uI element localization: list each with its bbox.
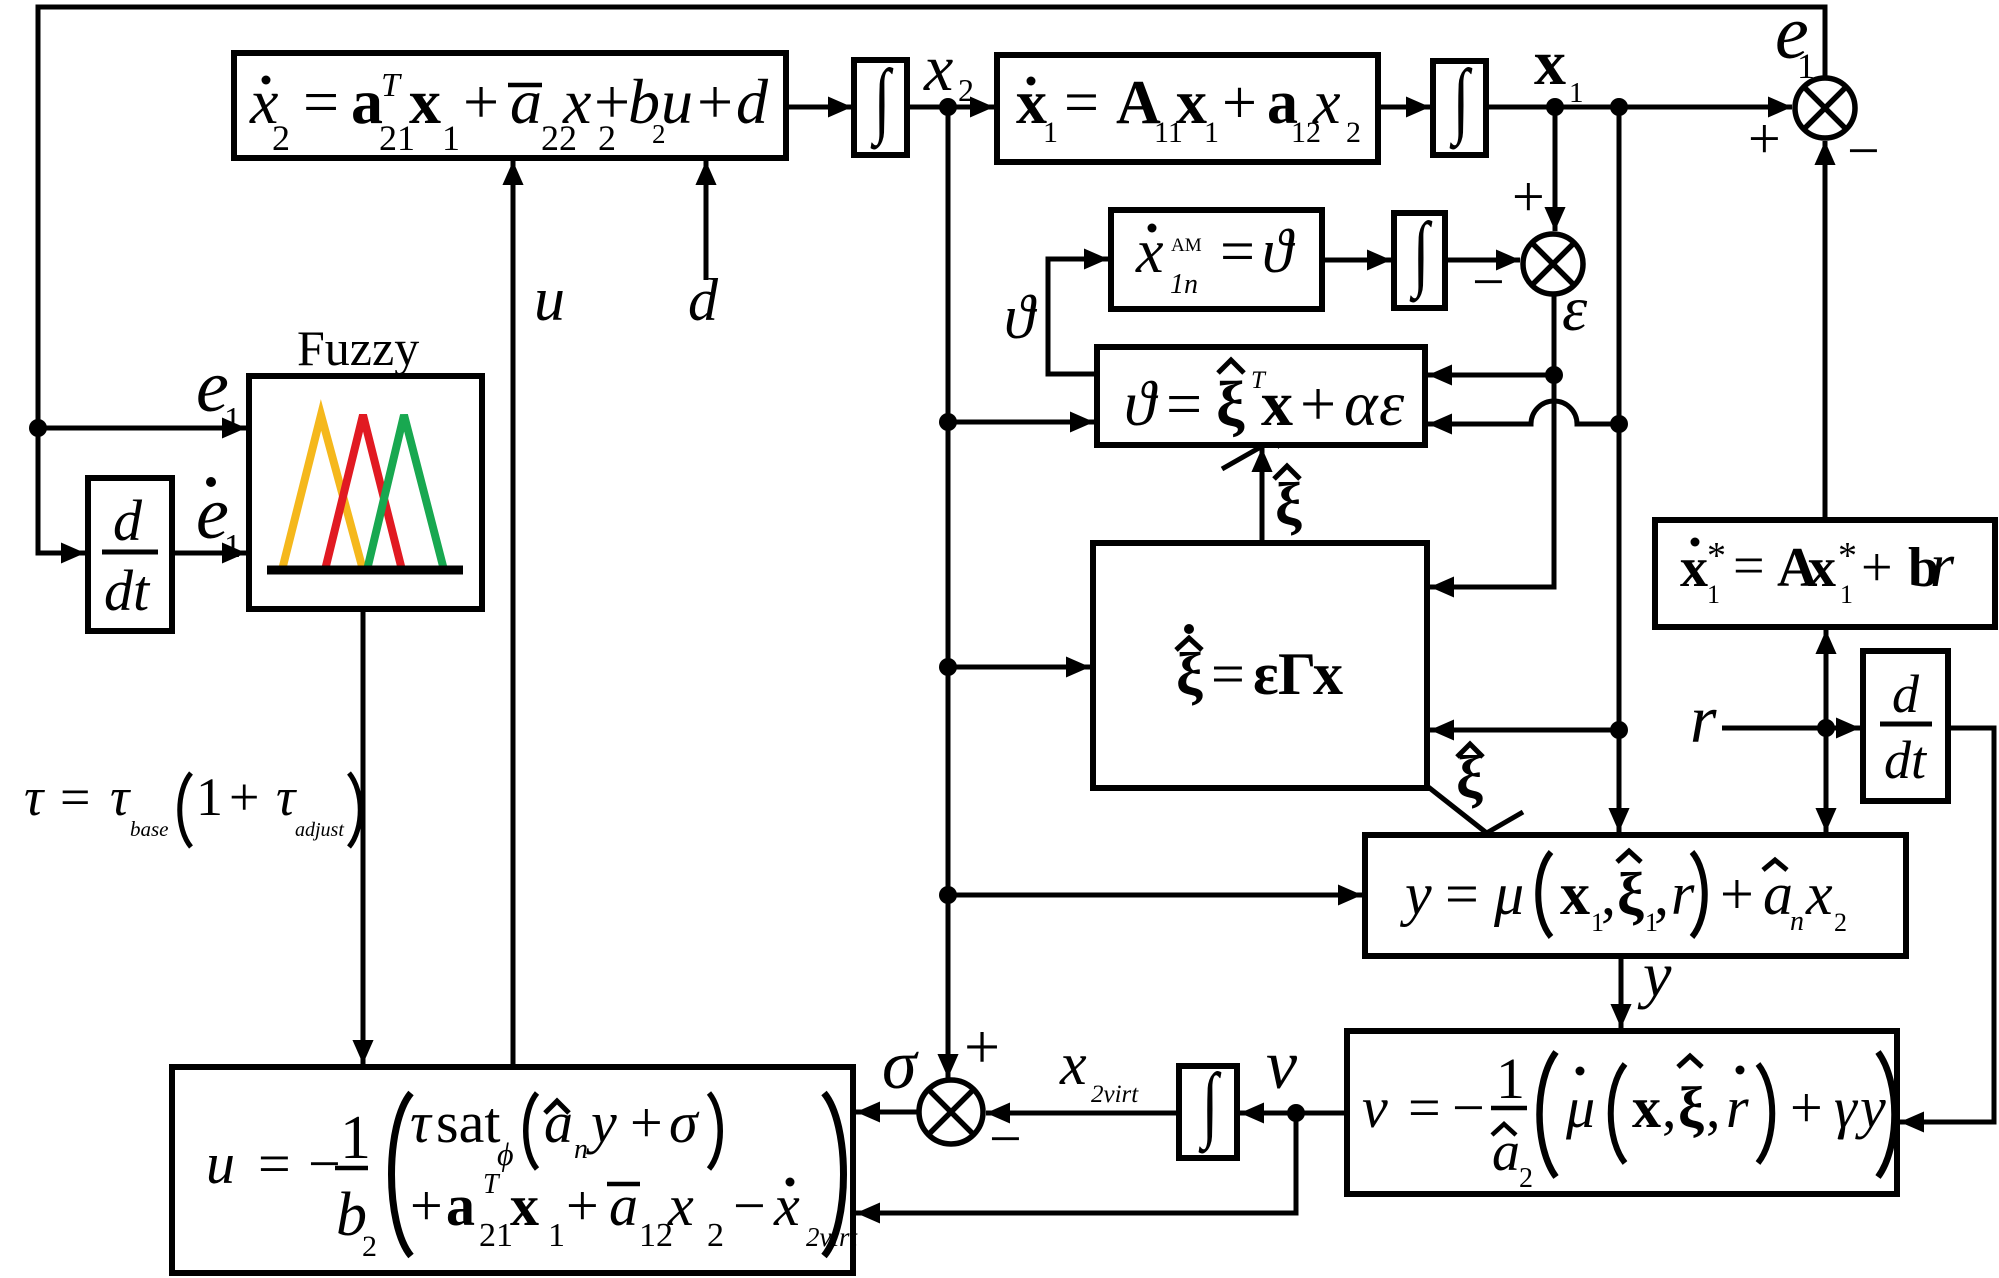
svg-text:=: = bbox=[1064, 69, 1099, 137]
svg-text:x: x bbox=[923, 32, 953, 105]
svg-text:2: 2 bbox=[707, 1217, 724, 1254]
svg-text:+: + bbox=[1861, 537, 1893, 599]
svg-text:−: − bbox=[1452, 1075, 1485, 1140]
svg-text:a: a bbox=[446, 1173, 475, 1238]
svg-text:a: a bbox=[1763, 861, 1793, 927]
svg-text:2: 2 bbox=[1834, 908, 1847, 937]
svg-text:1: 1 bbox=[548, 1217, 565, 1254]
svg-text:2: 2 bbox=[1519, 1163, 1533, 1194]
svg-text:v: v bbox=[1266, 1027, 1298, 1104]
svg-text:adjust: adjust bbox=[295, 819, 344, 841]
svg-text:d: d bbox=[736, 66, 769, 137]
svg-text:1: 1 bbox=[1707, 580, 1720, 609]
svg-text:1: 1 bbox=[1043, 116, 1058, 149]
svg-text:1: 1 bbox=[1797, 46, 1815, 86]
svg-text:∫: ∫ bbox=[1409, 205, 1432, 303]
svg-text:x: x bbox=[1312, 69, 1341, 137]
svg-text:=: = bbox=[1733, 535, 1765, 597]
svg-text:dt: dt bbox=[104, 558, 151, 623]
svg-text:μ: μ bbox=[1493, 861, 1524, 927]
svg-text:21: 21 bbox=[479, 1217, 513, 1254]
svg-text:+: + bbox=[410, 1173, 443, 1238]
svg-text:τ: τ bbox=[276, 767, 297, 827]
svg-text:n: n bbox=[1790, 906, 1804, 937]
svg-text:+: + bbox=[1512, 164, 1545, 229]
svg-text:x: x bbox=[1176, 69, 1207, 137]
svg-text:x: x bbox=[1560, 861, 1590, 927]
svg-text:x: x bbox=[510, 1173, 539, 1238]
svg-text:x: x bbox=[1261, 368, 1293, 439]
svg-text:n: n bbox=[574, 1134, 588, 1165]
svg-text:x: x bbox=[667, 1173, 694, 1238]
svg-text:v: v bbox=[1362, 1075, 1388, 1140]
svg-text:ε: ε bbox=[1253, 641, 1279, 707]
svg-text:+: + bbox=[463, 66, 499, 137]
svg-text:x: x bbox=[1808, 537, 1836, 599]
svg-text:+: + bbox=[1222, 69, 1257, 137]
svg-text:+: + bbox=[1720, 861, 1754, 927]
svg-text:2virt: 2virt bbox=[1091, 1081, 1139, 1108]
svg-text:T: T bbox=[381, 67, 402, 104]
svg-text:2: 2 bbox=[1346, 116, 1361, 149]
svg-text:r: r bbox=[1671, 861, 1695, 927]
svg-text:α: α bbox=[1344, 368, 1379, 439]
svg-text:1: 1 bbox=[1204, 116, 1219, 149]
svg-text:Fuzzy: Fuzzy bbox=[297, 320, 419, 376]
svg-text:d: d bbox=[688, 267, 719, 333]
svg-text:=: = bbox=[1445, 861, 1479, 927]
svg-text:T: T bbox=[483, 1169, 501, 1200]
svg-text:=: = bbox=[1211, 641, 1245, 707]
svg-text:+: + bbox=[1748, 106, 1781, 171]
svg-text:r: r bbox=[1690, 681, 1717, 757]
svg-text:1: 1 bbox=[224, 528, 241, 565]
svg-text:2: 2 bbox=[272, 118, 290, 158]
svg-text:x: x bbox=[1534, 27, 1566, 98]
svg-text:x: x bbox=[1632, 1075, 1661, 1140]
svg-text:ξ: ξ bbox=[1176, 641, 1203, 707]
svg-text:,: , bbox=[1601, 861, 1616, 927]
svg-text:dt: dt bbox=[1884, 730, 1928, 790]
svg-text:+: + bbox=[1300, 368, 1336, 439]
svg-text:*: * bbox=[1707, 535, 1726, 577]
svg-text:1: 1 bbox=[1496, 1046, 1525, 1111]
svg-text:u: u bbox=[534, 266, 565, 334]
svg-text:+: + bbox=[594, 66, 630, 137]
svg-text:d: d bbox=[1892, 664, 1920, 724]
svg-text:ϑ: ϑ bbox=[1124, 368, 1159, 439]
svg-text:ξ: ξ bbox=[1216, 368, 1245, 439]
svg-text:Γ: Γ bbox=[1278, 641, 1316, 707]
svg-text:d: d bbox=[113, 488, 143, 553]
svg-text:γ: γ bbox=[1834, 1075, 1859, 1140]
svg-text:2virt: 2virt bbox=[806, 1222, 858, 1252]
svg-text:∫: ∫ bbox=[870, 52, 893, 150]
svg-text:r: r bbox=[1726, 1075, 1749, 1140]
svg-text:1: 1 bbox=[224, 401, 241, 438]
svg-text:AM: AM bbox=[1171, 235, 1202, 256]
svg-text:u: u bbox=[661, 66, 693, 137]
svg-text:σ: σ bbox=[669, 1090, 700, 1155]
svg-text:+: + bbox=[630, 1090, 663, 1155]
svg-text:=: = bbox=[1408, 1075, 1441, 1140]
svg-text:y: y bbox=[586, 1090, 617, 1155]
svg-text:2: 2 bbox=[958, 72, 974, 108]
svg-text:ε: ε bbox=[1562, 273, 1588, 344]
svg-text:1: 1 bbox=[1840, 580, 1853, 609]
svg-text:=: = bbox=[303, 66, 339, 137]
svg-text:ξ: ξ bbox=[1678, 1075, 1704, 1140]
svg-text:r: r bbox=[1930, 532, 1955, 600]
svg-text:1: 1 bbox=[442, 118, 460, 158]
svg-text:x: x bbox=[1059, 1031, 1087, 1097]
svg-text:x: x bbox=[409, 66, 441, 137]
svg-text:ξ: ξ bbox=[1617, 861, 1644, 927]
svg-text:1: 1 bbox=[340, 1104, 371, 1172]
svg-text:τ: τ bbox=[110, 767, 131, 827]
svg-text:x: x bbox=[1805, 861, 1833, 927]
svg-text:+: + bbox=[1790, 1075, 1823, 1140]
svg-text:base: base bbox=[130, 817, 169, 841]
svg-text:∫: ∫ bbox=[1198, 1056, 1221, 1154]
svg-text:sat: sat bbox=[436, 1090, 500, 1155]
svg-text:2: 2 bbox=[362, 1230, 377, 1263]
svg-text:y: y bbox=[1855, 1075, 1886, 1140]
svg-text:−: − bbox=[1472, 249, 1505, 314]
svg-text:,: , bbox=[1662, 1075, 1677, 1140]
svg-text:*: * bbox=[1838, 535, 1857, 577]
svg-text:−: − bbox=[733, 1173, 766, 1238]
svg-text:x: x bbox=[562, 66, 591, 137]
svg-text:=: = bbox=[60, 767, 90, 827]
svg-text:ϑ: ϑ bbox=[1262, 218, 1296, 286]
svg-text:=: = bbox=[258, 1131, 291, 1196]
svg-text:σ: σ bbox=[882, 1027, 919, 1104]
svg-text:ϕ: ϕ bbox=[497, 1136, 514, 1172]
svg-text:,: , bbox=[1706, 1075, 1721, 1140]
svg-text:,: , bbox=[1654, 861, 1669, 927]
svg-text:ε: ε bbox=[1379, 368, 1405, 439]
svg-text:ξ: ξ bbox=[1275, 471, 1302, 537]
svg-text:y: y bbox=[1637, 939, 1672, 1010]
svg-text:=: = bbox=[1220, 218, 1255, 286]
svg-text:+: + bbox=[697, 66, 733, 137]
svg-text:τ: τ bbox=[410, 1090, 433, 1155]
svg-text:ϑ: ϑ bbox=[1004, 284, 1038, 352]
svg-text:a: a bbox=[510, 66, 542, 137]
svg-text:=: = bbox=[1166, 368, 1202, 439]
svg-text:∫: ∫ bbox=[1449, 52, 1472, 150]
svg-text:τ: τ bbox=[24, 767, 45, 827]
svg-text:+: + bbox=[229, 767, 259, 827]
svg-text:1n: 1n bbox=[1170, 269, 1198, 300]
svg-text:1: 1 bbox=[196, 767, 223, 827]
svg-text:−: − bbox=[989, 1106, 1022, 1171]
svg-text:μ: μ bbox=[1565, 1075, 1595, 1140]
svg-text:+: + bbox=[566, 1173, 599, 1238]
svg-text:1: 1 bbox=[1569, 77, 1584, 109]
svg-text:−: − bbox=[1847, 118, 1880, 183]
svg-text:x: x bbox=[1313, 641, 1343, 707]
svg-text:+: + bbox=[964, 1011, 1000, 1082]
svg-text:u: u bbox=[206, 1131, 235, 1196]
